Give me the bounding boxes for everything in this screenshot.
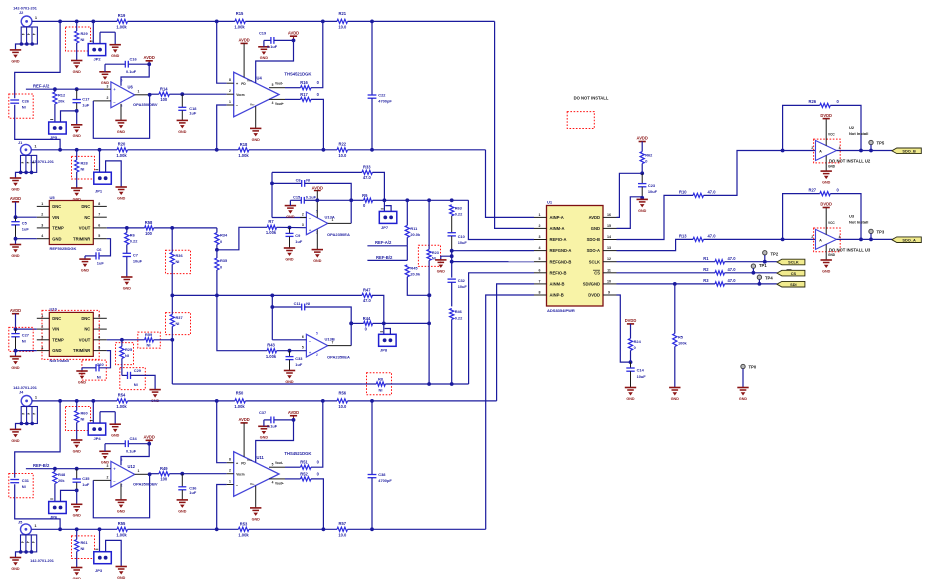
svg-text:U13B: U13B — [325, 337, 335, 342]
svg-text:GND: GND — [252, 517, 261, 521]
resistor R19 — [116, 13, 127, 29]
svg-text:GND: GND — [260, 56, 269, 60]
capacitor C29 (NI) — [120, 368, 155, 390]
resistor R34 — [215, 228, 228, 252]
resistor R63 — [450, 205, 464, 233]
svg-text:C19: C19 — [259, 30, 267, 35]
ground at C20 — [76, 371, 87, 384]
svg-text:NI: NI — [176, 259, 180, 264]
svg-text:C23: C23 — [648, 183, 656, 188]
svg-text:C17: C17 — [82, 97, 89, 102]
capacitor C20 (NI) — [82, 351, 111, 381]
svg-text:20.0k: 20.0k — [410, 272, 421, 277]
svg-text:OPA350IDBV: OPA350IDBV — [133, 102, 158, 107]
svg-text:C9: C9 — [295, 233, 301, 238]
ground below U2 — [821, 171, 832, 184]
svg-text:0.22: 0.22 — [455, 315, 463, 320]
svg-text:GND: GND — [73, 134, 82, 138]
svg-text:REF-B/2: REF-B/2 — [376, 255, 393, 260]
wire SCLK from ADC — [617, 260, 777, 264]
svg-text:0.1uF: 0.1uF — [126, 449, 137, 454]
svg-text:AVDD: AVDD — [288, 30, 299, 35]
resistor R16 — [285, 20, 325, 90]
svg-text:REFGND-B: REFGND-B — [550, 259, 572, 264]
svg-text:R25: R25 — [125, 347, 133, 352]
svg-text:5: 5 — [539, 257, 541, 261]
jumper JP2 — [88, 21, 115, 61]
svg-text:5: 5 — [316, 332, 318, 336]
svg-text:GND: GND — [117, 196, 126, 200]
svg-text:1.00k: 1.00k — [116, 153, 127, 158]
buffer U2 (not installed) — [811, 119, 871, 171]
resistor R33 feedback — [272, 165, 384, 201]
ground below R61 — [71, 568, 82, 579]
svg-text:3: 3 — [41, 223, 43, 227]
svg-text:GND: GND — [626, 397, 635, 401]
resistor R2 — [703, 267, 736, 275]
ground at C15 — [285, 200, 296, 219]
svg-text:R6: R6 — [130, 233, 136, 238]
ground below C9 — [284, 248, 295, 261]
wire +IN A down to U4 — [217, 21, 227, 83]
svg-text:10: 10 — [607, 279, 611, 283]
svg-text:VCC: VCC — [828, 221, 835, 225]
svg-text:U12: U12 — [128, 464, 136, 469]
svg-text:R13: R13 — [679, 233, 687, 238]
svg-text:R46: R46 — [455, 309, 463, 314]
resistor R1 — [703, 256, 736, 264]
svg-text:0: 0 — [634, 345, 636, 350]
svg-text:REFIO-A: REFIO-A — [550, 237, 567, 242]
svg-text:GND: GND — [828, 253, 836, 257]
svg-text:DVDD: DVDD — [820, 202, 832, 207]
svg-text:Vout-: Vout- — [275, 82, 283, 86]
ground below U6 — [115, 104, 126, 134]
svg-text:C15: C15 — [293, 195, 301, 200]
capacitor C23 — [638, 173, 658, 199]
svg-text:4: 4 — [272, 480, 274, 484]
svg-text:REFGND-A: REFGND-A — [550, 248, 572, 253]
svg-text:0: 0 — [645, 159, 647, 164]
test point TP3 — [869, 229, 885, 241]
wire B divider column — [217, 295, 267, 350]
svg-text:R8: R8 — [378, 376, 384, 381]
svg-text:R22: R22 — [339, 142, 347, 147]
capacitor C6 — [85, 239, 111, 266]
svg-text:GND: GND — [285, 380, 294, 384]
svg-text:TP4: TP4 — [765, 275, 773, 280]
svg-text:4: 4 — [839, 146, 841, 150]
svg-text:DO NOT INSTALL U2: DO NOT INSTALL U2 — [829, 159, 871, 164]
ground below C17 — [71, 125, 82, 138]
svg-text:C11: C11 — [294, 301, 302, 306]
svg-text:TEMP: TEMP — [52, 226, 64, 231]
power AVDD at C19 — [288, 30, 299, 42]
svg-text:10.0: 10.0 — [338, 153, 347, 158]
svg-text:C5: C5 — [22, 221, 28, 226]
wire REFGND-A — [450, 249, 534, 253]
svg-text:R16: R16 — [300, 80, 308, 85]
svg-text:AVDD: AVDD — [238, 417, 249, 422]
ground at C6 — [79, 259, 90, 272]
svg-text:JP2: JP2 — [94, 57, 102, 62]
svg-text:NC: NC — [84, 215, 90, 220]
resistor R44 — [349, 316, 385, 331]
svg-text:5: 5 — [302, 345, 304, 349]
svg-text:1.00k: 1.00k — [116, 532, 127, 537]
svg-text:16: 16 — [607, 213, 611, 217]
power AVDD at ADC with resistor R62 — [637, 136, 654, 176]
wire divider jog to R7 — [217, 227, 267, 250]
svg-text:DNC: DNC — [81, 204, 90, 209]
svg-text:10.0: 10.0 — [338, 24, 347, 29]
svg-text:U1: U1 — [547, 199, 553, 204]
svg-text:AINP-A: AINP-A — [550, 215, 564, 220]
capacitor C33 — [286, 349, 304, 370]
svg-text:R5: R5 — [678, 334, 684, 339]
svg-text:47.0: 47.0 — [708, 233, 717, 238]
svg-text:Vout+: Vout+ — [275, 102, 284, 106]
jumper JP6 — [49, 490, 77, 519]
svg-text:GND: GND — [111, 434, 120, 438]
fully-differential amplifier U4 THS4521DGK — [227, 71, 312, 116]
net label REF-A/2 — [26, 83, 104, 91]
capacitor C8 (NI) feedback — [270, 172, 353, 223]
flag SDO_B — [892, 148, 922, 154]
svg-text:DVDD: DVDD — [588, 293, 600, 298]
ground at C19 — [258, 40, 269, 60]
wire CS from ADC — [617, 271, 777, 275]
svg-text:R63: R63 — [455, 205, 463, 210]
wire R14 to U4 Vocm — [182, 93, 226, 95]
resistor R53 — [238, 522, 337, 538]
svg-text:JP4: JP4 — [94, 436, 102, 441]
resistor R49 — [150, 466, 183, 481]
svg-text:R23: R23 — [432, 251, 439, 255]
svg-text:REF5025IDGK: REF5025IDGK — [50, 246, 77, 251]
ground below C33 — [284, 371, 295, 384]
svg-text:13: 13 — [607, 246, 611, 250]
svg-text:NI: NI — [81, 37, 85, 42]
svg-text:Vs+: Vs+ — [247, 78, 253, 82]
jumper JP5 — [49, 111, 77, 140]
wire U5 VOUT — [107, 226, 145, 230]
svg-text:10uF: 10uF — [648, 189, 658, 194]
svg-text:GND: GND — [178, 509, 187, 513]
resistor R3 — [703, 278, 736, 286]
svg-text:R29: R29 — [81, 31, 89, 36]
svg-text:AINP-B: AINP-B — [550, 293, 564, 298]
svg-text:AVDD: AVDD — [10, 308, 21, 313]
svg-text:AINM-A: AINM-A — [550, 226, 565, 231]
svg-text:GND: GND — [11, 59, 20, 63]
jumper JP8 — [379, 323, 397, 352]
svg-text:CS: CS — [594, 270, 600, 275]
test point TP1 — [751, 263, 767, 273]
capacitor C31 (NI) — [9, 401, 60, 529]
wire U12 feedback loop — [93, 472, 151, 517]
svg-text:1uF: 1uF — [97, 261, 105, 266]
op-amp U6 OPA350 — [93, 78, 158, 108]
resistor R21 — [337, 11, 495, 29]
svg-text:DVDD: DVDD — [625, 318, 637, 323]
svg-text:2: 2 — [41, 213, 43, 217]
svg-text:NI: NI — [22, 339, 26, 344]
svg-text:R47: R47 — [363, 288, 371, 293]
svg-text:47.0: 47.0 — [363, 175, 372, 180]
svg-text:PD: PD — [241, 462, 246, 466]
wire reference mid row — [170, 293, 431, 297]
svg-text:1uF: 1uF — [295, 362, 303, 367]
svg-text:2: 2 — [811, 146, 813, 150]
resistor R14 — [150, 87, 183, 102]
svg-text:R7: R7 — [268, 219, 274, 224]
svg-text:AINM-B: AINM-B — [550, 282, 565, 287]
wire SDI from ADC — [617, 282, 777, 286]
svg-text:4: 4 — [41, 234, 43, 238]
svg-text:11: 11 — [607, 268, 611, 272]
svg-text:GND: GND — [111, 54, 120, 58]
svg-text:1: 1 — [41, 202, 43, 206]
svg-text:SDO_A: SDO_A — [902, 237, 916, 242]
svg-text:AVDD: AVDD — [312, 185, 323, 190]
svg-text:0: 0 — [220, 239, 222, 244]
capacitor C26 (NI) — [9, 21, 60, 149]
jumper JP1 — [94, 150, 121, 194]
svg-text:0.1uF: 0.1uF — [306, 195, 317, 200]
svg-text:R50: R50 — [236, 391, 244, 396]
svg-text:2: 2 — [107, 476, 109, 480]
svg-text:R62: R62 — [645, 152, 653, 157]
svg-text:4: 4 — [539, 246, 541, 250]
svg-text:DO NOT INSTALL: DO NOT INSTALL — [574, 96, 609, 101]
svg-text:C6: C6 — [97, 247, 103, 252]
ground below C18 — [177, 120, 188, 133]
svg-text:Not Install: Not Install — [849, 131, 868, 136]
resistor R27 loop of U3 — [783, 187, 863, 241]
wire +IN B down to U11 — [217, 401, 227, 463]
svg-text:2: 2 — [229, 469, 231, 473]
svg-text:C16: C16 — [130, 56, 138, 61]
svg-text:10uF: 10uF — [458, 240, 468, 245]
svg-text:C7: C7 — [133, 252, 138, 257]
resistor R43 — [266, 343, 307, 359]
svg-text:C14: C14 — [637, 367, 645, 372]
ground below U11 — [250, 486, 261, 522]
wire -IN B up from bottom rail to U11 — [217, 485, 227, 530]
svg-text:NI: NI — [97, 374, 101, 379]
svg-text:0.1uF: 0.1uF — [267, 44, 278, 49]
resistor R50 — [234, 391, 337, 409]
svg-text:1: 1 — [229, 480, 231, 484]
jumper JP3 — [94, 529, 121, 573]
svg-text:20.0k: 20.0k — [410, 232, 421, 237]
resistor R28b loop of U2 — [783, 99, 863, 152]
svg-text:U2: U2 — [849, 125, 855, 130]
ground below TP0 — [737, 388, 748, 401]
svg-text:NI: NI — [176, 321, 180, 326]
svg-text:NI: NI — [134, 382, 138, 387]
svg-text:U4: U4 — [257, 76, 263, 81]
connector J1 142-0701-201 — [18, 140, 54, 174]
voltage reference U10 REF5025 (not installed) — [37, 307, 107, 363]
svg-text:100k: 100k — [678, 341, 687, 346]
resistor R59 (NI) — [138, 332, 173, 348]
svg-text:GND: GND — [591, 226, 600, 231]
svg-text:GND: GND — [11, 567, 20, 571]
resistor R54 — [116, 393, 127, 409]
ground at J5 shield — [10, 552, 21, 571]
svg-text:JP1: JP1 — [95, 189, 103, 194]
svg-text:GND: GND — [73, 449, 82, 453]
net label REF-A/2 wire — [367, 240, 407, 260]
resistor R7 — [266, 219, 307, 235]
svg-text:47.0: 47.0 — [728, 278, 737, 283]
svg-text:5: 5 — [272, 463, 274, 467]
wire ADC GND pin — [617, 197, 643, 229]
svg-text:6: 6 — [539, 268, 541, 272]
svg-text:GND: GND — [117, 130, 126, 134]
svg-text:R3: R3 — [703, 278, 709, 283]
resistor R17 — [285, 92, 325, 152]
svg-text:NI: NI — [81, 546, 85, 551]
svg-text:TP1: TP1 — [759, 263, 767, 268]
ground at JP3 — [116, 567, 127, 579]
power AVDD at U6 — [144, 55, 155, 66]
ground below R60 — [71, 440, 82, 453]
wire R59 node to mid rail — [170, 338, 174, 384]
svg-text:1uF: 1uF — [82, 482, 90, 487]
svg-text:NI: NI — [379, 387, 383, 392]
svg-text:NC: NC — [84, 327, 90, 332]
wire SDO-A from ADC — [617, 239, 694, 250]
svg-text:AVDD: AVDD — [144, 435, 155, 440]
svg-text:1uF: 1uF — [22, 227, 30, 232]
svg-text:TP5: TP5 — [877, 141, 885, 146]
DO NOT INSTALL dotted box — [567, 96, 609, 129]
svg-text:47.0: 47.0 — [728, 256, 737, 261]
svg-text:ADS8354IPWR: ADS8354IPWR — [547, 308, 575, 313]
svg-text:10uF: 10uF — [133, 259, 143, 264]
capacitor C38 — [368, 401, 393, 529]
ground at C16 — [99, 64, 110, 85]
resistor R58 — [145, 220, 217, 236]
svg-text:U13A: U13A — [325, 214, 335, 219]
svg-text:C35: C35 — [82, 476, 90, 481]
svg-text:SDO_B: SDO_B — [902, 149, 916, 154]
svg-text:U3: U3 — [849, 214, 855, 219]
resistor R11 — [405, 200, 421, 246]
ground below C27 — [10, 356, 21, 369]
wire REFGND-B — [450, 251, 534, 278]
resistor R51 — [285, 399, 325, 469]
voltage reference U5 REF5025IDGK — [37, 195, 107, 251]
wire VREF-A to ADC REFIO-A — [468, 200, 534, 239]
capacitor C11 (NI) feedback — [270, 295, 353, 345]
svg-text:0.1uF: 0.1uF — [267, 424, 278, 429]
svg-text:7: 7 — [539, 279, 541, 283]
resistor R48 — [53, 469, 66, 502]
svg-text:TP2: TP2 — [771, 251, 779, 256]
svg-text:2: 2 — [811, 235, 813, 239]
svg-text:AVDD: AVDD — [637, 136, 648, 141]
resistor R35 — [215, 250, 228, 296]
svg-text:TRIM/NR: TRIM/NR — [73, 348, 90, 353]
svg-text:R28: R28 — [81, 160, 89, 165]
wire AVDD node to output node — [317, 199, 351, 201]
svg-text:142-0701-201: 142-0701-201 — [13, 7, 37, 11]
svg-text:1: 1 — [138, 469, 140, 473]
svg-text:4: 4 — [272, 101, 274, 105]
svg-text:1.00k: 1.00k — [234, 404, 245, 409]
svg-text:R52: R52 — [300, 472, 308, 477]
resistor R15 — [234, 11, 337, 29]
svg-text:47.0: 47.0 — [728, 267, 737, 272]
svg-text:GND: GND — [11, 366, 20, 370]
svg-text:VIN: VIN — [52, 215, 59, 220]
svg-text:1uF: 1uF — [295, 239, 303, 244]
svg-text:GND: GND — [828, 164, 836, 168]
power AVDD at U11 — [238, 417, 249, 457]
svg-text:0.22: 0.22 — [455, 212, 463, 217]
ground at JP1 — [116, 187, 127, 200]
svg-text:A: A — [819, 150, 822, 154]
svg-text:SDI: SDI — [790, 282, 797, 287]
svg-text:GND: GND — [101, 81, 110, 85]
svg-text:R53: R53 — [240, 522, 248, 527]
wire ADC REFIO-B — [469, 273, 534, 384]
svg-text:1.00k: 1.00k — [238, 532, 249, 537]
svg-text:142-0701-201: 142-0701-201 — [13, 386, 37, 390]
svg-text:AVDD: AVDD — [10, 196, 21, 201]
fully-differential amplifier U11 THS4521DGK — [227, 451, 312, 496]
capacitor C18 — [178, 92, 197, 120]
svg-text:GND: GND — [252, 138, 261, 142]
svg-text:GND: GND — [178, 130, 187, 134]
svg-text:R1: R1 — [703, 256, 709, 261]
ground at J2 shield — [10, 44, 22, 63]
resistor R37 (NI) — [166, 295, 191, 339]
svg-text:GND: GND — [52, 236, 61, 241]
ADC U1 ADS8354IPWR — [534, 199, 617, 312]
svg-text:1: 1 — [539, 213, 541, 217]
capacitor C27 (NI) — [9, 327, 37, 356]
wire bottom rail to ADC AINP-A — [486, 150, 535, 218]
connector J2 142-0701-201 — [13, 7, 38, 46]
svg-text:C38: C38 — [378, 472, 386, 477]
svg-text:R58: R58 — [145, 220, 153, 225]
svg-text:TEMP: TEMP — [52, 337, 64, 342]
test point TP5 — [869, 140, 885, 152]
svg-text:GND: GND — [739, 397, 748, 401]
svg-text:10uF: 10uF — [458, 284, 468, 289]
svg-text:8: 8 — [229, 458, 231, 462]
svg-text:TP0: TP0 — [749, 365, 757, 370]
wire SDO-B from ADC — [617, 195, 694, 239]
svg-text:C29: C29 — [134, 368, 142, 373]
svg-text:GND: GND — [260, 436, 269, 440]
svg-text:5: 5 — [98, 234, 100, 238]
svg-text:2: 2 — [302, 213, 304, 217]
svg-text:R43: R43 — [267, 343, 275, 348]
svg-text:5: 5 — [98, 346, 100, 350]
svg-text:1.00k: 1.00k — [266, 230, 277, 235]
resistor R9 — [351, 193, 386, 208]
svg-text:VIN: VIN — [52, 327, 59, 332]
ground below C35 — [71, 504, 82, 517]
svg-text:R51: R51 — [300, 460, 308, 465]
svg-text:C31: C31 — [22, 478, 30, 483]
